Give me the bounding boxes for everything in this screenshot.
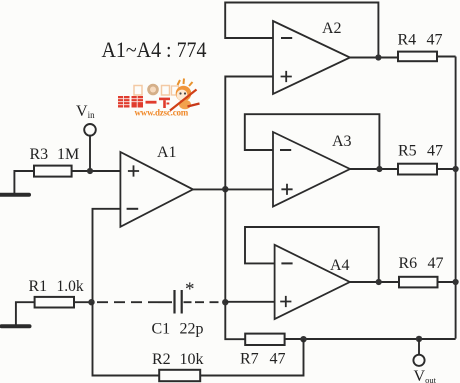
svg-text:A2: A2 — [322, 20, 342, 37]
wire A4 feedback loop — [245, 227, 379, 282]
wire bus to A4 plus — [225, 301, 274, 303]
node R1/A1 feedback — [88, 299, 94, 305]
svg-text:47: 47 — [427, 143, 443, 160]
svg-text:R6: R6 — [399, 255, 418, 272]
svg-text:A1: A1 — [157, 144, 177, 161]
svg-text:Vout: Vout — [414, 368, 437, 383]
ground — [0, 193, 29, 197]
wire R3 left lead — [14, 171, 34, 193]
wire A2 output — [350, 57, 398, 59]
wire dashed to C1 — [97, 301, 158, 303]
wire A1 minus input — [93, 209, 121, 302]
pin A3 non-inverting input + — [281, 184, 292, 195]
capacitor C1 — [175, 290, 182, 314]
pin A4 non-inverting input + — [280, 296, 291, 307]
node Vin/R3 — [87, 168, 93, 174]
resistor R4 — [398, 52, 437, 62]
wire right bus — [455, 57, 457, 339]
svg-text:A3: A3 — [332, 133, 352, 150]
node bus/C1/A4 plus — [222, 299, 228, 305]
svg-text:47: 47 — [427, 32, 443, 49]
wire A1 output to A3 plus — [193, 188, 273, 190]
wire R7 right to right bus — [285, 338, 456, 340]
svg-text:*: * — [185, 279, 195, 300]
node A3 output — [376, 166, 382, 172]
pin A2 inverting input - — [281, 37, 292, 39]
node Vout — [416, 336, 422, 342]
wire A3 output — [350, 168, 398, 170]
pin A4 inverting input - — [281, 262, 292, 264]
wire dashed C1 to bus — [184, 301, 192, 303]
op-amp A2 — [273, 21, 350, 94]
wire R2 right riser — [200, 339, 303, 375]
wire R2 branch — [93, 302, 160, 375]
svg-text:10k: 10k — [180, 351, 204, 368]
svg-text:R5: R5 — [398, 143, 417, 160]
svg-text:R3: R3 — [30, 146, 49, 163]
svg-text:R4: R4 — [398, 32, 417, 49]
wire R4 right to right bus — [437, 56, 456, 58]
pin A1 non-inverting input + — [128, 165, 139, 176]
svg-text:Vin: Vin — [76, 103, 95, 120]
node A2 output — [375, 54, 381, 60]
wire R3 right to A1 plus — [72, 170, 121, 172]
wire A3 feedback loop — [245, 114, 380, 169]
svg-text:22p: 22p — [180, 321, 204, 338]
op-amp A4 — [275, 245, 350, 319]
wire Vin to node — [89, 136, 91, 171]
pin A3 inverting input - — [280, 149, 291, 151]
svg-text:www.dzsc.com: www.dzsc.com — [135, 108, 189, 118]
svg-text:1.0k: 1.0k — [57, 278, 84, 295]
resistor R7 — [245, 334, 284, 345]
node R7/R2 — [300, 336, 306, 342]
node bus/A1 output — [222, 186, 228, 192]
wire R6 right lead — [438, 281, 456, 283]
wire R1 right lead — [74, 301, 93, 303]
resistor R2 — [159, 370, 200, 381]
terminal Vin — [84, 124, 96, 136]
svg-text:R1: R1 — [29, 278, 48, 295]
terminal Vout — [413, 355, 424, 366]
ground — [2, 324, 30, 328]
op-amp A1 — [120, 152, 193, 227]
svg-text:R2: R2 — [152, 351, 171, 368]
node right bus R6 — [453, 279, 459, 285]
wire central bus with A2 plus input and R7 lead — [225, 77, 273, 340]
resistor R1 — [35, 297, 74, 308]
watermark logo — [118, 79, 200, 118]
svg-text:1M: 1M — [57, 146, 79, 163]
svg-text:A1~A4 : 774: A1~A4 : 774 — [102, 37, 207, 62]
op-amp A3 — [273, 132, 350, 207]
svg-text:C1: C1 — [152, 321, 171, 338]
wire R1 left lead — [16, 302, 35, 324]
resistor R6 — [399, 277, 438, 288]
node A4 output — [376, 279, 382, 285]
resistor R3 — [34, 166, 72, 177]
svg-text:47: 47 — [270, 351, 286, 368]
wire A4 output — [350, 281, 399, 283]
svg-text:R7: R7 — [240, 351, 259, 368]
node right bus R5 — [453, 166, 459, 172]
pin A2 non-inverting input + — [281, 71, 292, 82]
svg-text:47: 47 — [428, 255, 444, 272]
wire A2 feedback loop — [225, 3, 378, 58]
wire R5 right lead — [437, 168, 456, 170]
pin A1 inverting input - — [127, 208, 139, 210]
resistor R5 — [398, 164, 437, 175]
wire Vout lead — [418, 339, 420, 355]
svg-text:A4: A4 — [330, 257, 350, 274]
